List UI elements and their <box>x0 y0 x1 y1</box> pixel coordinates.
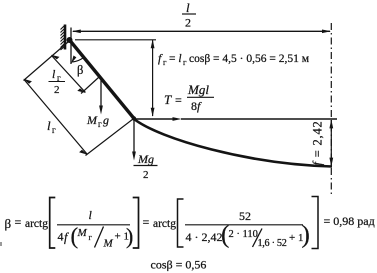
svg-text:arctg: arctg <box>25 218 48 230</box>
svg-text:T: T <box>164 92 172 107</box>
chain segment P-J (thick) <box>70 40 135 119</box>
svg-text:M: M <box>86 113 98 127</box>
svg-text:г: г <box>52 125 56 135</box>
svg-text:8f: 8f <box>191 99 202 113</box>
svg-text:г: г <box>98 119 102 129</box>
svg-text:f = 2,42: f = 2,42 <box>311 120 325 165</box>
formula T = Mgl / 8f <box>164 82 214 113</box>
label l_g <box>47 118 56 135</box>
svg-text:g: g <box>103 113 109 127</box>
svg-text:2: 2 <box>143 169 149 181</box>
dimension line l/2 <box>72 30 331 34</box>
svg-text:1,6 · 52: 1,6 · 52 <box>258 238 287 249</box>
dimension line l_g/2 <box>51 55 86 93</box>
svg-text:=: = <box>175 93 182 107</box>
svg-text:l: l <box>186 0 190 15</box>
svg-text:г: г <box>183 57 187 67</box>
wall support line <box>64 25 67 50</box>
svg-text:=: = <box>15 215 22 229</box>
svg-text:M: M <box>77 227 88 239</box>
vertical reference line at support <box>70 28 72 65</box>
svg-text:2: 2 <box>185 16 191 30</box>
left bracket 1 <box>50 198 56 249</box>
dimension f_r vertical <box>151 39 155 116</box>
svg-text:β: β <box>77 63 83 77</box>
label f_r = l_r cos beta = 4,5*0,56 = 2,51 m <box>158 51 310 67</box>
label M_g g <box>86 113 109 129</box>
big formula: beta = arctg[...] = arctg[...] = 0,98 rad <box>5 197 375 250</box>
svg-text:=: = <box>143 215 150 229</box>
extension line 2 through midpoint M <box>81 78 99 94</box>
dimension line l_g <box>23 79 87 155</box>
svg-text:4: 4 <box>58 230 64 244</box>
label Mg/2 <box>134 152 158 181</box>
wall support hatching <box>61 26 65 50</box>
scan speck at page edge <box>0 242 2 246</box>
svg-text:г: г <box>89 233 93 242</box>
svg-text:arctg: arctg <box>153 218 176 230</box>
svg-text:52: 52 <box>239 209 251 223</box>
svg-text:M: M <box>103 238 114 250</box>
svg-text:= 0,98 рад: = 0,98 рад <box>324 214 375 228</box>
node J (junction) <box>132 116 136 120</box>
force T arrow <box>134 117 182 121</box>
force M_g g (weight of garland half) <box>99 79 103 115</box>
svg-text:f: f <box>64 231 69 245</box>
svg-text:2 · 110: 2 · 110 <box>229 229 258 240</box>
svg-text:l: l <box>52 67 56 81</box>
axis of symmetry (dash-dot line) <box>330 23 332 196</box>
cable curve J to axis (thick) <box>134 119 332 167</box>
right bracket 1 <box>133 198 139 249</box>
dimension f on axis <box>329 119 333 166</box>
force Mg/2 <box>132 119 136 161</box>
svg-text:Mg: Mg <box>137 152 154 166</box>
wire: thin line continuing T to axis <box>181 118 337 120</box>
svg-text:2: 2 <box>54 84 60 96</box>
angle beta arc <box>72 57 84 62</box>
svg-text:cosβ = 0,56: cosβ = 0,56 <box>151 258 207 272</box>
svg-text:l: l <box>89 208 93 222</box>
right bracket 2 <box>312 197 319 249</box>
svg-text:= l: = l <box>169 53 182 65</box>
svg-text:г: г <box>163 57 167 67</box>
horizontal extension line from P <box>75 39 156 41</box>
svg-text:Mgl: Mgl <box>187 82 209 97</box>
svg-text:4 · 2,42: 4 · 2,42 <box>186 230 223 244</box>
extension line 3 from J <box>86 119 134 156</box>
node P (attachment point) <box>67 37 73 43</box>
label l_g/2 <box>49 67 66 96</box>
svg-text:cosβ = 4,5 · 0,56 = 2,51 м: cosβ = 4,5 · 0,56 = 2,51 м <box>189 53 310 65</box>
svg-text:β: β <box>5 216 12 231</box>
label l/2 <box>182 0 196 30</box>
left bracket 2 <box>178 199 184 247</box>
svg-text:): ) <box>126 224 133 249</box>
extension line 1 from P (perpendicular) <box>24 42 69 81</box>
svg-text:l: l <box>47 118 51 133</box>
svg-text:): ) <box>302 222 310 249</box>
